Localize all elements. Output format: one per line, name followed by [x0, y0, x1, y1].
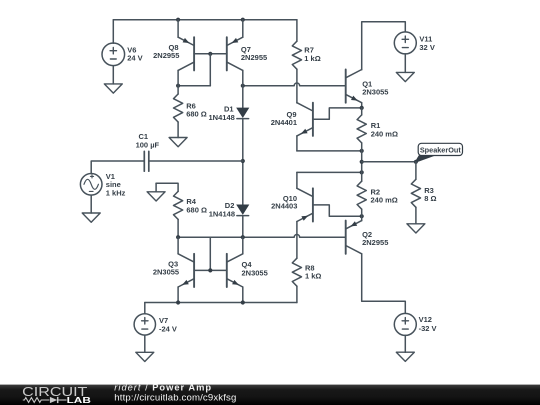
wire rail to R7: [296, 20, 298, 42]
node D2 / Q4 collector: [241, 235, 245, 239]
node Q3 emitter on rail: [176, 300, 180, 304]
transistor Q9: [297, 103, 362, 151]
node R4 / Q3 collector: [176, 235, 180, 239]
diode D2: [237, 205, 249, 216]
label Q10: [271, 194, 297, 211]
wire R2 bottom lead: [361, 209, 363, 216]
svg-text:-32 V: -32 V: [419, 324, 437, 333]
svg-text:1 kΩ: 1 kΩ: [304, 54, 320, 63]
resistor R4: [174, 191, 183, 219]
node base tie bottom: [208, 268, 212, 272]
node Q8 collector / R6: [176, 84, 180, 88]
wire R8 bottom: [296, 286, 298, 302]
wire D1 to D2: [242, 119, 244, 205]
wire bottom rail: [145, 302, 297, 304]
resistor R1: [357, 115, 366, 143]
node SpeakerOut tap: [414, 160, 418, 164]
label D2: [209, 201, 235, 218]
wire C1 to center node: [149, 160, 243, 162]
svg-text:8 Ω: 8 Ω: [424, 194, 436, 203]
label D1: [209, 104, 235, 121]
transistor Q8: [178, 20, 194, 86]
ground at R4: [147, 183, 165, 201]
label V1: [106, 172, 126, 198]
label R2: [371, 187, 398, 204]
svg-text:2N2955: 2N2955: [153, 51, 179, 60]
label Q1: [362, 79, 388, 96]
node Q10 base / R2 bottom: [360, 214, 364, 218]
svg-text:2N2955: 2N2955: [241, 53, 267, 62]
svg-text:ridert / Power Amp: ridert / Power Amp: [114, 382, 212, 392]
ground below R3: [407, 224, 425, 233]
label R8: [305, 263, 321, 280]
svg-text:V12: V12: [419, 315, 432, 324]
transistor Q1: [346, 70, 362, 108]
label Q2: [362, 230, 388, 247]
transistor Q3: [178, 237, 194, 302]
svg-text:-24 V: -24 V: [159, 324, 177, 333]
wire SpeakerOut to R3: [415, 162, 417, 180]
wire V1 to C1: [91, 161, 144, 174]
wire top rail: [113, 19, 297, 21]
node C1 junction: [241, 159, 245, 163]
wire D2 to node: [242, 216, 244, 238]
label V7: [159, 316, 177, 333]
voltage source V7: [134, 314, 155, 335]
wire R3 bottom: [415, 207, 417, 224]
node R1 bottom: [360, 149, 364, 153]
svg-text:2N3055: 2N3055: [153, 268, 179, 277]
wire Q8 collector to tie: [178, 85, 210, 87]
wire R1 top lead: [361, 108, 363, 115]
wire V6 positive lead: [112, 20, 114, 44]
attribution title text: [114, 382, 212, 392]
label R1: [371, 121, 398, 138]
node base tie top: [208, 52, 212, 56]
wire Q7 collector to Q1 base (hop): [243, 83, 346, 86]
wire Q8-Q7 base tie: [194, 53, 227, 55]
resistor R7: [292, 41, 301, 69]
svg-text:24 V: 24 V: [127, 54, 142, 63]
wire Q1 collector to V11 rail: [362, 22, 406, 70]
wire R4 top to ground: [156, 183, 178, 191]
label V12: [419, 315, 437, 333]
svg-text:240 mΩ: 240 mΩ: [371, 196, 398, 205]
voltage source V6: [102, 43, 125, 66]
resistor R8: [292, 258, 301, 286]
node Q7 collector / D1: [241, 84, 245, 88]
label Q3: [153, 259, 179, 276]
wire Q10 collector to output node: [297, 171, 362, 173]
svg-text:SpeakerOut: SpeakerOut: [420, 146, 462, 155]
transistor Q4: [227, 237, 243, 302]
wire rail to V7: [144, 303, 146, 314]
label V6: [127, 45, 142, 62]
label R4: [186, 197, 207, 214]
label R6: [186, 101, 207, 118]
node Q8 emitter on rail: [176, 18, 180, 22]
wire Q3-Q4 base tie: [194, 269, 227, 271]
svg-text:2N2955: 2N2955: [362, 238, 388, 247]
resistor R2: [357, 181, 366, 209]
wire R4 bottom: [177, 219, 179, 237]
transistor Q10: [297, 172, 362, 258]
svg-text:2N4401: 2N4401: [271, 118, 297, 127]
wire Q9 emitter to R1 bottom: [297, 150, 362, 152]
node Q1 emitter / R1 top / Q9 base: [360, 106, 364, 110]
node output / SpeakerOut line: [360, 160, 364, 164]
voltage source V11: [394, 32, 416, 54]
transistor Q2: [346, 216, 362, 254]
ground below R6: [169, 122, 187, 147]
attribution url text: [114, 392, 236, 403]
wire lower node to Q2 base (hop): [178, 235, 346, 238]
svg-text:680 Ω: 680 Ω: [186, 110, 207, 119]
voltage source V12: [394, 313, 416, 335]
svg-text:2N4403: 2N4403: [271, 201, 297, 210]
svg-text:1 kHz: 1 kHz: [106, 188, 126, 197]
node R2 top: [360, 170, 364, 174]
logo CIRCUIT wordmark: [22, 384, 87, 399]
logo LAB wordmark: [67, 395, 91, 405]
label R7: [304, 46, 320, 64]
svg-text:1N4148: 1N4148: [209, 209, 235, 218]
ground below V7: [136, 335, 154, 361]
branding bar background: [0, 385, 540, 405]
transistor Q7: [227, 20, 243, 86]
node Q7 emitter on rail: [241, 18, 245, 22]
logo resistor-diode glyph: [23, 397, 67, 403]
wire R1 to R2: [361, 143, 363, 181]
wire base tie bottom vertical: [209, 237, 211, 270]
ground below V1: [82, 195, 100, 222]
svg-text:680 Ω: 680 Ω: [186, 205, 207, 214]
wire R7 to Q9 collector: [296, 69, 298, 103]
label Q8: [153, 43, 179, 60]
svg-text:2N3055: 2N3055: [242, 268, 268, 277]
svg-text:LAB: LAB: [67, 395, 91, 405]
svg-text:2N3055: 2N3055: [362, 87, 388, 96]
label V11: [419, 35, 434, 52]
diode D1: [237, 86, 249, 119]
svg-text:240 mΩ: 240 mΩ: [371, 130, 398, 139]
label Q7: [241, 45, 267, 62]
node Q4 emitter on rail: [241, 300, 245, 304]
resistor R6: [174, 86, 183, 122]
resistor R3: [411, 179, 420, 207]
wire base tie to collector rail: [209, 54, 211, 86]
flag SpeakerOut: [415, 143, 462, 162]
label Q4: [242, 260, 268, 277]
label C1: [136, 132, 160, 149]
ground below V11: [396, 54, 414, 82]
ground below V12: [396, 335, 414, 361]
svg-text:100 µF: 100 µF: [136, 141, 160, 150]
wire output to SpeakerOut: [362, 161, 416, 163]
svg-text:1N4148: 1N4148: [209, 113, 235, 122]
label R3: [424, 186, 436, 203]
svg-text:1 kΩ: 1 kΩ: [305, 272, 321, 281]
svg-text:http://circuitlab.com/c9xkfsg: http://circuitlab.com/c9xkfsg: [114, 392, 236, 403]
source V1 (sine): [80, 174, 102, 196]
wire Q2 collector to V12: [362, 254, 406, 314]
ground below V6: [104, 66, 122, 94]
capacitor C1: [144, 151, 149, 171]
svg-text:32 V: 32 V: [419, 43, 434, 52]
label Q9: [271, 110, 297, 127]
